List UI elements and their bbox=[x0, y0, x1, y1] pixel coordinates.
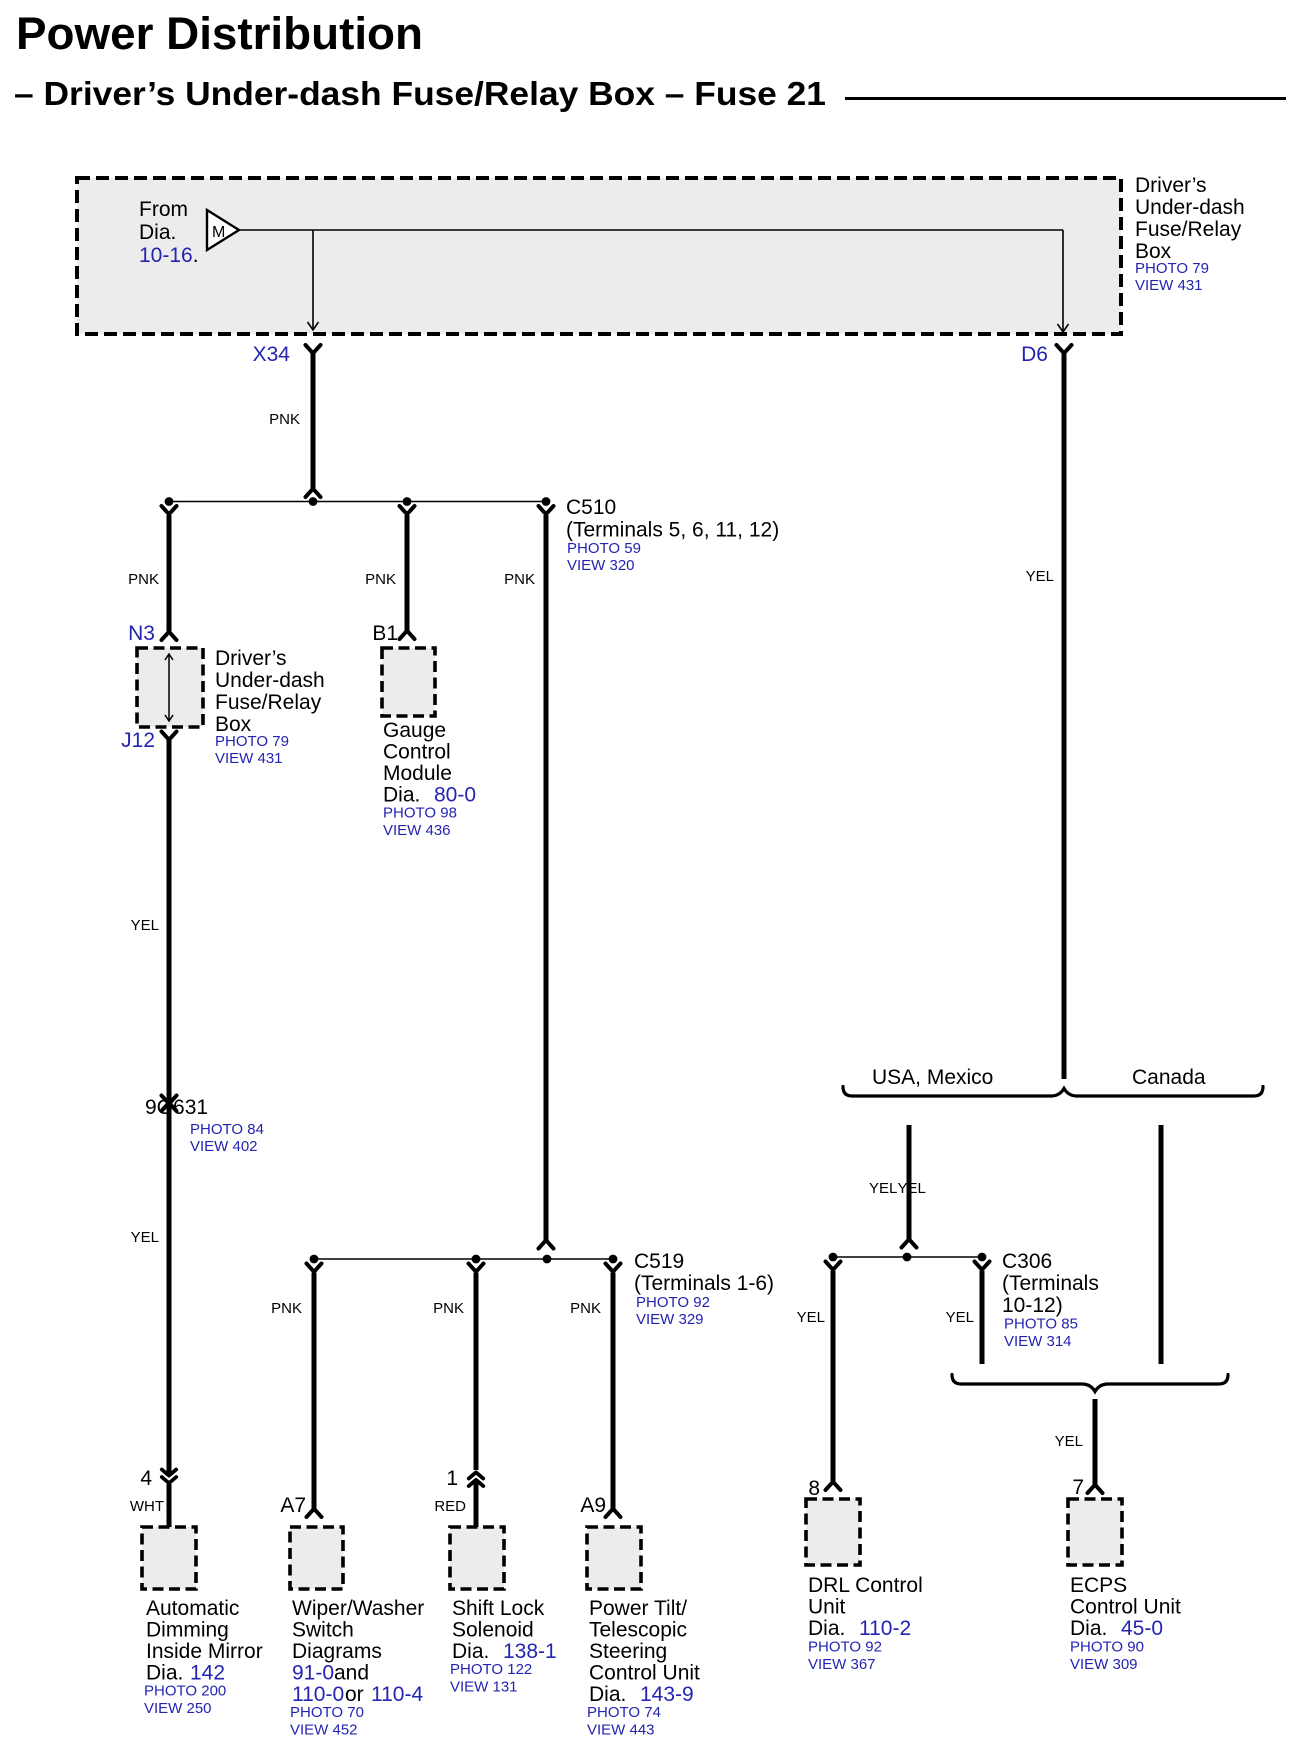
svg-text:Fuse/Relay: Fuse/Relay bbox=[215, 691, 322, 714]
svg-text:Dia.: Dia. bbox=[808, 1617, 845, 1640]
terminal DRL pin 8 (fork down) bbox=[826, 1483, 841, 1490]
svg-text:Dia.: Dia. bbox=[139, 221, 176, 244]
svg-text:A7: A7 bbox=[280, 1494, 306, 1517]
svg-text:D6: D6 bbox=[1021, 343, 1048, 366]
terminal into C306 (fork down) bbox=[902, 1240, 917, 1247]
svg-text:PHOTO 74: PHOTO 74 bbox=[587, 1704, 661, 1721]
branch A9: terminal (fork up) bbox=[606, 1264, 621, 1271]
svg-text:VIEW 131: VIEW 131 bbox=[450, 1679, 518, 1696]
svg-text:PNK: PNK bbox=[365, 571, 396, 588]
svg-text:9G631: 9G631 bbox=[145, 1096, 208, 1119]
svg-text:45-0: 45-0 bbox=[1121, 1617, 1163, 1640]
svg-text:X34: X34 bbox=[253, 343, 291, 366]
branch C306 right: terminal (fork up) bbox=[975, 1262, 990, 1269]
automatic dimming inside mirror (dashed box) bbox=[142, 1527, 196, 1589]
svg-text:Unit: Unit bbox=[808, 1596, 846, 1619]
svg-text:PHOTO 85: PHOTO 85 bbox=[1004, 1316, 1078, 1333]
svg-text:VIEW 436: VIEW 436 bbox=[383, 822, 451, 839]
terminal B1 (fork down) bbox=[400, 632, 415, 639]
svg-text:PHOTO 122: PHOTO 122 bbox=[450, 1661, 532, 1678]
wire into solenoid (RED) bbox=[474, 1482, 479, 1527]
svg-text:4: 4 bbox=[140, 1467, 152, 1490]
svg-text:Module: Module bbox=[383, 762, 452, 785]
svg-text:VIEW 309: VIEW 309 bbox=[1070, 1656, 1138, 1673]
svg-text:YEL: YEL bbox=[946, 1309, 974, 1326]
merge bracket to ECPS bbox=[952, 1375, 1228, 1392]
splice 9G631 bbox=[162, 1096, 177, 1103]
svg-text:Fuse/Relay: Fuse/Relay bbox=[1135, 218, 1242, 241]
terminal chevrons at solenoid pin 1 bbox=[469, 1473, 483, 1479]
svg-text:Automatic: Automatic bbox=[146, 1597, 239, 1620]
svg-text:ECPS: ECPS bbox=[1070, 1574, 1127, 1597]
terminal A7 (fork down) bbox=[307, 1510, 322, 1517]
svg-text:RED: RED bbox=[434, 1498, 466, 1515]
svg-text:(Terminals: (Terminals bbox=[1002, 1272, 1099, 1295]
svg-text:and: and bbox=[334, 1662, 369, 1685]
svg-text:Dia.: Dia. bbox=[452, 1640, 489, 1663]
svg-text:PNK: PNK bbox=[570, 1300, 601, 1317]
wire to shift lock solenoid (RED) bbox=[474, 1273, 479, 1471]
svg-text:PNK: PNK bbox=[433, 1300, 464, 1317]
svg-text:M: M bbox=[212, 224, 225, 241]
svg-text:Shift Lock: Shift Lock bbox=[452, 1597, 545, 1620]
svg-text:Under-dash: Under-dash bbox=[215, 669, 325, 692]
svg-text:Solenoid: Solenoid bbox=[452, 1619, 534, 1642]
wire into mirror (WHT) bbox=[167, 1484, 172, 1527]
svg-text:80-0: 80-0 bbox=[434, 784, 476, 807]
svg-text:PHOTO 92: PHOTO 92 bbox=[636, 1294, 710, 1311]
svg-text:Dia.: Dia. bbox=[589, 1683, 626, 1706]
svg-text:VIEW 250: VIEW 250 bbox=[144, 1700, 212, 1717]
svg-text:YEL: YEL bbox=[131, 917, 159, 934]
shift lock solenoid (dashed box) bbox=[450, 1527, 504, 1589]
svg-text:N3: N3 bbox=[128, 622, 155, 645]
wire to DRL control unit (YEL) bbox=[831, 1271, 836, 1483]
svg-text:YEL: YEL bbox=[1026, 568, 1054, 585]
svg-text:Dia.: Dia. bbox=[1070, 1617, 1107, 1640]
wire USA/Mexico branch (YEL) bbox=[907, 1125, 912, 1240]
svg-text:PHOTO 98: PHOTO 98 bbox=[383, 805, 457, 822]
svg-text:C306: C306 bbox=[1002, 1250, 1052, 1273]
svg-text:A9: A9 bbox=[580, 1494, 606, 1517]
internal link arrow N3 to J12 bbox=[168, 654, 170, 721]
svg-text:YEL: YEL bbox=[131, 1229, 159, 1246]
wire J12 down (YEL) bbox=[167, 738, 172, 1474]
svg-text:91-0: 91-0 bbox=[292, 1662, 334, 1685]
wiper/washer switch (dashed box) bbox=[290, 1527, 343, 1589]
svg-text:VIEW 367: VIEW 367 bbox=[808, 1656, 876, 1673]
svg-text:PHOTO 59: PHOTO 59 bbox=[567, 540, 641, 557]
subtitle horizontal rule bbox=[845, 97, 1286, 100]
svg-text:PNK: PNK bbox=[504, 571, 535, 588]
svg-text:YEL: YEL bbox=[898, 1180, 926, 1197]
gauge control module (dashed box) bbox=[382, 648, 435, 716]
terminal into C519 (fork down) bbox=[539, 1241, 554, 1248]
source symbol M (triangle) bbox=[207, 210, 239, 250]
svg-text:143-9: 143-9 bbox=[640, 1683, 694, 1706]
branch shift lock: terminal (fork up) bbox=[469, 1264, 484, 1271]
svg-text:VIEW 402: VIEW 402 bbox=[190, 1138, 258, 1155]
svg-text:Dia.: Dia. bbox=[383, 784, 420, 807]
svg-text:Gauge: Gauge bbox=[383, 719, 446, 742]
DRL control unit (dashed box) bbox=[806, 1499, 860, 1565]
junction dots on C519 bbox=[310, 1255, 319, 1264]
svg-text:(Terminals 5, 6, 11, 12): (Terminals 5, 6, 11, 12) bbox=[566, 519, 779, 542]
svg-text:138-1: 138-1 bbox=[503, 1640, 557, 1663]
svg-text:VIEW 329: VIEW 329 bbox=[636, 1311, 704, 1328]
branch DRL: terminal (fork up) bbox=[826, 1262, 841, 1269]
svg-text:WHT: WHT bbox=[130, 1498, 164, 1515]
svg-text:Control Unit: Control Unit bbox=[1070, 1596, 1181, 1619]
junction dots on C306 bbox=[829, 1253, 838, 1262]
branch A7: terminal (fork up) bbox=[307, 1264, 322, 1271]
svg-text:or: or bbox=[345, 1683, 364, 1706]
svg-text:Driver’s: Driver’s bbox=[1135, 174, 1207, 197]
arrowhead at D6 bbox=[1058, 324, 1069, 332]
svg-text:VIEW 314: VIEW 314 bbox=[1004, 1333, 1072, 1350]
svg-text:Wiper/Washer: Wiper/Washer bbox=[292, 1597, 424, 1620]
terminal J12 (fork up) bbox=[162, 732, 177, 739]
svg-text:Telescopic: Telescopic bbox=[589, 1619, 687, 1642]
svg-text:VIEW 443: VIEW 443 bbox=[587, 1722, 655, 1739]
svg-text:VIEW 320: VIEW 320 bbox=[567, 557, 635, 574]
terminal D6 (fork up) bbox=[1057, 345, 1072, 352]
svg-text:C510: C510 bbox=[566, 496, 616, 519]
svg-text:110-4: 110-4 bbox=[371, 1683, 423, 1706]
svg-text:PNK: PNK bbox=[269, 411, 300, 428]
svg-text:(Terminals 1-6): (Terminals 1-6) bbox=[634, 1272, 774, 1295]
svg-text:110-0: 110-0 bbox=[292, 1683, 344, 1706]
terminal into C510 (fork down) bbox=[306, 490, 321, 497]
svg-text:8: 8 bbox=[808, 1477, 820, 1500]
svg-text:Inside Mirror: Inside Mirror bbox=[146, 1640, 263, 1663]
arrowhead at X34 bbox=[308, 322, 319, 330]
svg-text:Power Distribution: Power Distribution bbox=[16, 8, 423, 59]
svg-text:J12: J12 bbox=[121, 729, 155, 752]
svg-text:Control: Control bbox=[383, 741, 451, 764]
terminal N3 (fork down) bbox=[162, 633, 177, 640]
split bracket below D6 wire bbox=[843, 1087, 1263, 1097]
svg-text:C519: C519 bbox=[634, 1250, 684, 1273]
wire X34 down (PNK) bbox=[311, 352, 316, 490]
branch to B1: terminal (fork up) bbox=[400, 506, 415, 513]
svg-text:PHOTO 79: PHOTO 79 bbox=[215, 733, 289, 750]
svg-text:DRL Control: DRL Control bbox=[808, 1574, 923, 1597]
svg-text:– Driver’s Under-dash Fuse/Rel: – Driver’s Under-dash Fuse/Relay Box – F… bbox=[14, 75, 826, 112]
svg-text:PNK: PNK bbox=[271, 1300, 302, 1317]
wire: horizontal feed inside fuse box bbox=[239, 229, 1063, 231]
wire to B1 (PNK) bbox=[405, 515, 410, 632]
svg-text:PHOTO 200: PHOTO 200 bbox=[144, 1683, 226, 1700]
connector C519 bus line bbox=[314, 1258, 613, 1260]
svg-text:Control Unit: Control Unit bbox=[589, 1662, 700, 1685]
wire to A7 (PNK) bbox=[312, 1273, 317, 1510]
svg-text:YEL: YEL bbox=[797, 1309, 825, 1326]
branch C510 trunk: terminal (fork up) bbox=[539, 506, 554, 513]
svg-text:PHOTO 70: PHOTO 70 bbox=[290, 1704, 364, 1721]
svg-text:10-16.: 10-16. bbox=[139, 244, 199, 267]
fuse/relay box pass-through N3-J12 (dashed box) bbox=[137, 648, 203, 727]
svg-text:Power Tilt/: Power Tilt/ bbox=[589, 1597, 687, 1620]
svg-text:YEL: YEL bbox=[1055, 1433, 1083, 1450]
svg-text:Driver’s: Driver’s bbox=[215, 647, 287, 670]
svg-text:PHOTO 84: PHOTO 84 bbox=[190, 1121, 264, 1138]
power tilt/telescopic steering control unit (dashed box) bbox=[587, 1527, 641, 1589]
svg-text:YEL: YEL bbox=[869, 1180, 897, 1197]
wire to ECPS (YEL) bbox=[1093, 1399, 1098, 1485]
terminal A9 (fork down) bbox=[606, 1510, 621, 1517]
wire Canada branch (YEL) bbox=[1159, 1125, 1164, 1364]
wire to N3 (PNK) bbox=[167, 515, 172, 633]
wire: drop to D6 bbox=[1062, 230, 1064, 331]
fuse/relay box outline (dashed, grey) bbox=[77, 178, 1121, 334]
svg-text:142: 142 bbox=[190, 1662, 225, 1685]
wire D6 down (YEL) bbox=[1062, 352, 1067, 1080]
wire C510 to C519 (PNK) bbox=[544, 515, 549, 1241]
svg-text:VIEW 431: VIEW 431 bbox=[215, 750, 283, 767]
connector C510 bus line bbox=[169, 501, 546, 503]
svg-text:PHOTO 79: PHOTO 79 bbox=[1135, 260, 1209, 277]
svg-text:Diagrams: Diagrams bbox=[292, 1640, 382, 1663]
svg-text:VIEW 452: VIEW 452 bbox=[290, 1722, 358, 1739]
svg-text:7: 7 bbox=[1072, 1476, 1084, 1499]
svg-text:Dia.: Dia. bbox=[146, 1662, 183, 1685]
svg-text:Dimming: Dimming bbox=[146, 1619, 229, 1642]
wire to A9 (PNK) bbox=[611, 1273, 616, 1510]
junction dots on C510 bbox=[165, 497, 174, 506]
svg-text:PHOTO 90: PHOTO 90 bbox=[1070, 1639, 1144, 1656]
branch to N3: terminal (fork up) bbox=[162, 506, 177, 513]
wire C306 to merge bracket (YEL) bbox=[980, 1271, 985, 1365]
svg-text:110-2: 110-2 bbox=[859, 1617, 911, 1640]
terminal ECPS pin 7 (fork down) bbox=[1088, 1486, 1103, 1493]
terminal X34 (fork up) bbox=[306, 345, 321, 352]
connector C306 bus line bbox=[833, 1256, 982, 1258]
svg-text:VIEW 431: VIEW 431 bbox=[1135, 277, 1203, 294]
wire: drop to X34 bbox=[312, 230, 314, 329]
terminal chevrons at mirror pin 4 bbox=[162, 1470, 176, 1476]
svg-text:1: 1 bbox=[446, 1467, 458, 1490]
svg-text:PHOTO 92: PHOTO 92 bbox=[808, 1639, 882, 1656]
ECPS control unit (dashed box) bbox=[1068, 1499, 1122, 1565]
svg-text:10-12): 10-12) bbox=[1002, 1294, 1063, 1317]
svg-text:USA, Mexico: USA, Mexico bbox=[872, 1066, 993, 1089]
svg-text:Under-dash: Under-dash bbox=[1135, 196, 1245, 219]
svg-text:B1: B1 bbox=[372, 622, 398, 645]
svg-text:From: From bbox=[139, 198, 188, 221]
svg-text:Canada: Canada bbox=[1132, 1066, 1206, 1089]
svg-text:Switch: Switch bbox=[292, 1619, 354, 1642]
svg-text:PNK: PNK bbox=[128, 571, 159, 588]
svg-text:Steering: Steering bbox=[589, 1640, 667, 1663]
